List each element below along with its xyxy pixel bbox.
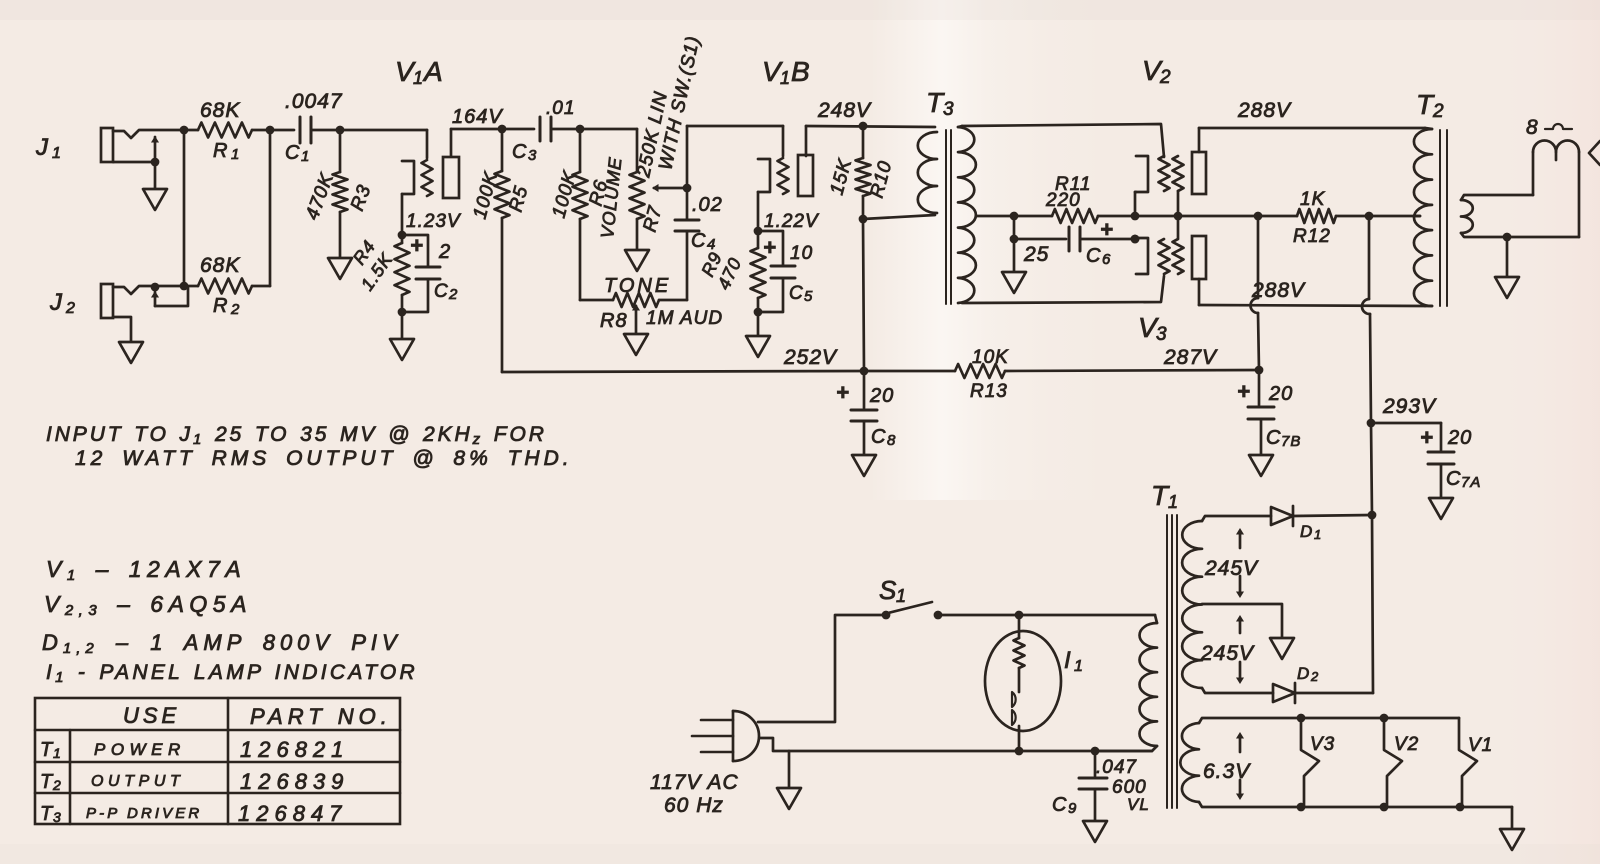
svg-text:3: 3 [53,809,62,825]
svg-text:+: + [1420,425,1434,450]
svg-text:1: 1 [53,745,62,761]
svg-text:220: 220 [1045,190,1081,211]
svg-text:POWER: POWER [94,740,186,759]
svg-text:TONE: TONE [604,275,671,297]
svg-text:T: T [40,803,54,825]
svg-text:10K: 10K [972,347,1009,368]
svg-text:2: 2 [52,777,62,793]
svg-text:2: 2 [1159,67,1172,88]
svg-text:+: + [836,380,850,405]
svg-text:293V: 293V [1382,395,1437,418]
svg-text:10: 10 [790,243,813,264]
svg-text:126821: 126821 [240,737,349,762]
svg-text:T: T [40,771,54,793]
svg-text:B: B [791,56,811,87]
svg-text:164V: 164V [452,106,503,128]
svg-text:20: 20 [1447,427,1472,449]
svg-text:C: C [789,283,804,304]
svg-text:1: 1 [1314,527,1322,542]
svg-text:R: R [213,140,228,162]
svg-text:C: C [285,142,300,164]
svg-text:25: 25 [1023,243,1049,266]
svg-text:1: 1 [52,145,62,162]
svg-text:V2: V2 [1394,734,1419,755]
svg-text:+: + [763,235,777,260]
svg-text:INPUT TO J1 25 TO 35 MV @ 2KH: INPUT TO J1 25 TO 35 MV @ 2KHz FOR [46,423,547,448]
svg-text:6.3V: 6.3V [1203,760,1251,783]
svg-text:PART NO.: PART NO. [250,704,392,729]
svg-text:.0047: .0047 [285,90,343,113]
svg-text:6: 6 [1102,251,1111,268]
svg-text:5: 5 [804,288,813,305]
svg-text:8: 8 [1526,116,1539,139]
svg-text:.01: .01 [546,98,575,119]
svg-text:.02: .02 [692,194,723,216]
svg-text:8: 8 [887,432,896,449]
svg-text:1: 1 [780,68,791,88]
svg-text:7B: 7B [1281,433,1301,450]
svg-text:C: C [1086,245,1101,267]
svg-text:2: 2 [448,286,458,303]
svg-text:12 WATT RMS OUTPUT @ 8% THD.: 12 WATT RMS OUTPUT @ 8% THD. [75,447,573,470]
svg-text:VL: VL [1127,795,1150,814]
svg-text:D: D [1297,664,1310,683]
svg-text:S: S [879,575,897,605]
svg-text:245V: 245V [1200,642,1255,665]
svg-text:+: + [1100,217,1114,242]
svg-text:248V: 248V [817,99,872,122]
svg-text:J: J [49,289,63,316]
svg-text:2: 2 [65,300,76,317]
svg-text:C: C [434,281,449,302]
svg-text:287V: 287V [1163,346,1218,369]
svg-text:20: 20 [1268,383,1293,405]
svg-text:60 Hz: 60 Hz [664,794,724,817]
svg-text:+: + [410,233,424,258]
svg-text:P-P DRIVER: P-P DRIVER [86,805,202,822]
svg-text:7A: 7A [1461,474,1481,491]
svg-text:1: 1 [231,146,240,163]
svg-text:2: 2 [1310,669,1319,684]
svg-text:R12: R12 [1293,226,1331,247]
svg-text:V3: V3 [1310,734,1335,755]
svg-text:1.22V: 1.22V [764,211,820,232]
svg-text:68K: 68K [200,99,240,122]
svg-text:C: C [871,426,886,448]
svg-text:245V: 245V [1204,557,1259,580]
svg-text:68K: 68K [200,254,240,277]
svg-text:2: 2 [230,301,240,318]
svg-text:126839: 126839 [240,769,349,794]
svg-text:288V: 288V [1237,99,1292,122]
svg-text:C: C [1446,468,1461,490]
svg-text:R: R [213,295,228,317]
svg-text:1: 1 [1168,492,1179,512]
svg-text:3: 3 [1156,324,1168,345]
svg-text:9: 9 [1068,800,1077,817]
svg-text:1K: 1K [1300,189,1326,210]
svg-text:126847: 126847 [238,801,347,826]
svg-text:R8: R8 [600,310,628,332]
svg-text:1.23V: 1.23V [406,211,462,232]
svg-text:3: 3 [528,147,537,164]
svg-text:J: J [35,134,49,161]
svg-text:C: C [512,141,527,163]
svg-text:.047: .047 [1096,757,1137,778]
svg-text:R13: R13 [970,381,1008,402]
svg-text:117V AC: 117V AC [650,771,739,794]
svg-text:1: 1 [413,68,424,88]
svg-text:A: A [422,56,444,87]
svg-text:1: 1 [896,586,907,606]
svg-text:C: C [1266,427,1281,449]
svg-text:1: 1 [301,148,310,165]
svg-text:V1: V1 [1468,735,1493,756]
svg-text:C: C [691,230,706,252]
svg-text:252V: 252V [783,346,838,369]
svg-text:C: C [1052,794,1067,816]
svg-text:I: I [1064,647,1072,674]
svg-text:USE: USE [123,703,180,728]
svg-text:2: 2 [1432,101,1445,122]
svg-text:20: 20 [869,385,894,407]
svg-text:3: 3 [943,99,955,120]
svg-text:1M AUD: 1M AUD [646,308,723,329]
svg-text:1: 1 [1074,658,1084,675]
svg-text:D: D [1300,522,1313,541]
svg-text:+: + [1237,379,1251,404]
svg-text:T: T [40,739,54,761]
svg-text:2: 2 [438,241,451,263]
svg-text:I1 - PANEL LAMP INDICATOR: I1 - PANEL LAMP INDICATOR [46,661,418,686]
svg-text:OUTPUT: OUTPUT [91,773,184,790]
